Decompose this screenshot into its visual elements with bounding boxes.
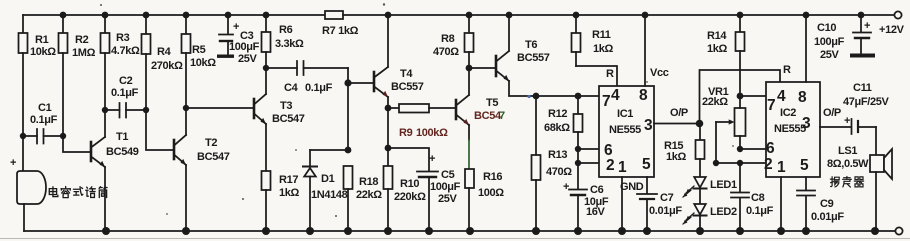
svg-text:R16: R16 bbox=[483, 171, 502, 183]
svg-text:0.1μF: 0.1μF bbox=[305, 82, 333, 94]
svg-text:270kΩ: 270kΩ bbox=[151, 60, 183, 72]
svg-text:R1: R1 bbox=[35, 34, 49, 46]
wire T1 emitter to ground bbox=[104, 167, 106, 231]
label O/P (IC2 output) bbox=[823, 107, 841, 119]
svg-text:5: 5 bbox=[642, 156, 651, 173]
label R (reset) IC1 bbox=[606, 68, 614, 80]
label R (reset) IC2 bbox=[783, 64, 791, 76]
svg-text:0.1μF: 0.1μF bbox=[111, 87, 139, 99]
svg-text:+: + bbox=[233, 21, 239, 33]
wire D1 cathode to node G bbox=[310, 149, 348, 151]
wire top +12V rail left segment bbox=[23, 14, 325, 16]
label T5 BC547 bbox=[474, 97, 505, 122]
ground symbol (C10) bbox=[850, 54, 875, 58]
capacitor C10 (electrolytic decoupling) bbox=[853, 15, 871, 53]
label R11 1kO bbox=[592, 29, 614, 55]
capacitor C11 (electrolytic coupling) bbox=[852, 119, 877, 134]
wire node J to T6 base bbox=[469, 67, 496, 69]
wire IC1 pin 1 to ground bbox=[621, 177, 623, 231]
label R18 22kO bbox=[356, 176, 382, 201]
resistor R12 bbox=[574, 96, 583, 163]
wire IC2 pin 3 output bbox=[820, 126, 851, 128]
wire IC1 pin 6 stub bbox=[578, 148, 599, 150]
svg-text:1kΩ: 1kΩ bbox=[707, 43, 728, 55]
svg-text:8Ω,0.5W: 8Ω,0.5W bbox=[827, 158, 869, 170]
wire IC1 pin 5 to C7 bbox=[646, 177, 648, 194]
svg-text:5: 5 bbox=[800, 157, 809, 174]
node T (pin2 / C8 junction) bbox=[737, 160, 743, 166]
label LED1 bbox=[710, 179, 737, 191]
svg-text:T3: T3 bbox=[280, 100, 292, 112]
capacitor C1 bbox=[23, 129, 63, 144]
scan specks bbox=[100, 3, 734, 217]
pin number 1 IC1 bbox=[618, 159, 627, 176]
wire IC1 pin 3 output bbox=[654, 123, 700, 125]
svg-text:7: 7 bbox=[602, 93, 610, 110]
electret microphone MIC bbox=[17, 171, 46, 204]
svg-text:470Ω: 470Ω bbox=[433, 46, 459, 58]
label R17 1kO bbox=[279, 174, 300, 199]
wire C4 to T4 base and detector node bbox=[347, 68, 349, 150]
label T3 BC547 bbox=[272, 100, 305, 125]
svg-text:25V: 25V bbox=[238, 53, 258, 65]
LED1 emission arrows bbox=[683, 186, 694, 197]
svg-text:T6: T6 bbox=[525, 39, 537, 51]
svg-text:C8: C8 bbox=[751, 192, 765, 204]
svg-text:R9: R9 bbox=[399, 127, 413, 139]
node C (R3 / T1 collector / C2) bbox=[102, 107, 108, 113]
svg-text:R11: R11 bbox=[592, 29, 611, 41]
svg-text:100kΩ: 100kΩ bbox=[416, 127, 448, 139]
pin number 7 IC1 bbox=[602, 93, 610, 110]
label C3 100uF 25V bbox=[229, 21, 260, 65]
potentiometer VR1 22kO bbox=[716, 96, 746, 163]
svg-text:220kΩ: 220kΩ bbox=[394, 191, 426, 203]
wire bottom ground rail bbox=[24, 230, 896, 232]
svg-text:16V: 16V bbox=[586, 206, 606, 218]
svg-text:3: 3 bbox=[644, 117, 653, 134]
label Vcc IC1 bbox=[650, 67, 669, 79]
transistor T4 BC557 bbox=[374, 67, 388, 97]
ground terminal circle bottom right bbox=[895, 227, 902, 234]
node D (C2 / R4 / T2 base) bbox=[143, 107, 149, 113]
node F (R6 / T3 collector / C4) bbox=[263, 65, 269, 71]
wire IC2 pin 2 stub bbox=[716, 162, 766, 164]
svg-text:T1: T1 bbox=[116, 131, 128, 143]
resistor R3 bbox=[101, 15, 110, 110]
diode D1 1N4148 bbox=[303, 150, 317, 231]
label C5 100uF 25V bbox=[429, 153, 461, 205]
svg-text:R13: R13 bbox=[548, 149, 567, 161]
label O/P (IC1 output) bbox=[670, 107, 688, 119]
svg-text:7: 7 bbox=[499, 110, 505, 122]
op-amp/timer IC1 NE555 box bbox=[599, 86, 654, 177]
node P (output / R15) bbox=[696, 120, 704, 128]
transistor T3 BC547 bbox=[254, 94, 266, 124]
svg-text:GND: GND bbox=[620, 181, 644, 193]
node A (mic / R1 / C1 junction) bbox=[20, 133, 26, 139]
capacitor C9 bbox=[797, 191, 815, 232]
svg-text:+: + bbox=[844, 115, 850, 127]
label LED2 bbox=[710, 206, 737, 218]
svg-text:+12V: +12V bbox=[879, 24, 905, 36]
label GND (IC1) bbox=[620, 181, 644, 193]
capacitor C8 bbox=[731, 163, 749, 231]
label +12V bbox=[879, 24, 905, 36]
node Q (R14 / VR1 / IC2 pin7) bbox=[737, 93, 744, 100]
svg-text:100μF: 100μF bbox=[430, 181, 461, 193]
node B (C1 / R2 / T1 base) bbox=[60, 133, 66, 139]
wire IC2 pin 7 stub bbox=[740, 95, 766, 97]
svg-text:BC54: BC54 bbox=[474, 110, 502, 122]
node K (R13 tap) bbox=[533, 93, 540, 100]
svg-text:C6: C6 bbox=[590, 184, 604, 196]
label (condenser microphone) bbox=[49, 187, 107, 198]
wire IC1 pin 8 to +12V rail bbox=[644, 15, 646, 86]
pin number 5 IC1 bbox=[642, 156, 651, 173]
label C6 10uF 16V bbox=[563, 181, 609, 218]
svg-text:C2: C2 bbox=[119, 75, 133, 87]
svg-text:R: R bbox=[606, 68, 614, 80]
label C10 100uF 25V bbox=[814, 20, 870, 61]
resistor R14 bbox=[736, 15, 745, 96]
wire microphone to ground rail bbox=[23, 204, 25, 231]
label T1 BC549 bbox=[106, 131, 139, 158]
resistor R2 bbox=[59, 15, 68, 136]
label NE555 (IC1) bbox=[609, 124, 641, 136]
pin number 1 IC2 bbox=[777, 159, 786, 176]
scan speck (blue) on T6 collector wire bbox=[527, 95, 530, 98]
svg-text:1N4148: 1N4148 bbox=[311, 189, 348, 201]
wire top +12V rail right segment bbox=[343, 14, 895, 16]
label LS1 8O,0.5W speaker bbox=[827, 145, 869, 170]
svg-text:1kΩ: 1kΩ bbox=[279, 187, 300, 199]
svg-text:+: + bbox=[864, 20, 870, 32]
label R16 100O bbox=[478, 171, 504, 199]
label R14 1kO bbox=[707, 30, 728, 55]
svg-text:R2: R2 bbox=[75, 34, 89, 46]
label R3 4.7kO bbox=[111, 32, 140, 57]
capacitor C5 (electrolytic) bbox=[388, 148, 438, 231]
svg-text:4: 4 bbox=[611, 87, 620, 104]
resistor R4 bbox=[142, 15, 151, 110]
timer IC2 NE555 box bbox=[766, 82, 820, 177]
svg-text:C9: C9 bbox=[820, 198, 834, 210]
capacitor C3 (electrolytic decoupling) bbox=[219, 15, 233, 54]
pin number 3 IC1 bbox=[644, 117, 653, 134]
label R1 10kO bbox=[30, 34, 56, 58]
svg-text:R12: R12 bbox=[548, 108, 567, 120]
svg-text:25V: 25V bbox=[820, 49, 840, 61]
node dots on top rail bbox=[60, 12, 865, 19]
label IC2 bbox=[780, 107, 796, 119]
svg-text:T2: T2 bbox=[205, 137, 217, 149]
label R10 220kO bbox=[394, 178, 426, 203]
svg-text:3: 3 bbox=[802, 115, 811, 132]
svg-text:7: 7 bbox=[767, 97, 775, 114]
wire T6 lower lead to IC1 pin7 net bbox=[509, 81, 599, 96]
node H (T4 / R9 / R10 / C5) bbox=[385, 105, 392, 112]
loudspeaker LS1 bbox=[870, 127, 892, 231]
resistor R1 bbox=[19, 15, 28, 136]
label C1 0.1uF bbox=[30, 102, 58, 126]
resistor R16 bbox=[465, 169, 474, 231]
wire T2 collector to node E bbox=[185, 108, 187, 135]
resistor R13 bbox=[532, 96, 541, 231]
wire T4 upper lead to +12V rail bbox=[387, 15, 389, 67]
svg-text:R6: R6 bbox=[279, 24, 293, 36]
junction dot T4 base tap bbox=[344, 79, 351, 86]
svg-text:1: 1 bbox=[618, 159, 627, 176]
node L (R12 tap) bbox=[575, 93, 582, 100]
label T2 BC547 bbox=[197, 137, 230, 163]
svg-text:C7: C7 bbox=[660, 192, 674, 204]
svg-text:10kΩ: 10kΩ bbox=[30, 46, 56, 58]
wire IC2 pin 8 to +12V rail bbox=[805, 15, 807, 82]
svg-text:470Ω: 470Ω bbox=[546, 166, 572, 178]
svg-text:1kΩ: 1kΩ bbox=[666, 151, 687, 163]
wire T5 collector to node J bbox=[468, 68, 470, 95]
capacitor C7 bbox=[637, 194, 657, 231]
svg-text:C11: C11 bbox=[853, 82, 872, 94]
node J (R8 / T5 collector / T6 base) bbox=[466, 65, 473, 72]
label R8 470O bbox=[433, 33, 459, 58]
svg-text:68kΩ: 68kΩ bbox=[544, 122, 570, 134]
wire node D to T2 base bbox=[146, 110, 174, 150]
wire T1 collector to node C bbox=[104, 110, 106, 137]
node G (D1 / R18 / T4 base net) bbox=[345, 147, 352, 154]
LED2 bbox=[694, 204, 707, 231]
svg-text:100Ω: 100Ω bbox=[478, 187, 504, 199]
node I (R10 / C5 junction) bbox=[385, 145, 392, 152]
label R2 1MO bbox=[72, 34, 96, 59]
svg-text:8: 8 bbox=[798, 89, 807, 106]
svg-text:22kΩ: 22kΩ bbox=[356, 189, 382, 201]
pin number 6 IC2 bbox=[766, 140, 775, 157]
svg-text:8: 8 bbox=[639, 87, 648, 104]
svg-text:0.01μF: 0.01μF bbox=[649, 205, 682, 217]
svg-text:47μF/25V: 47μF/25V bbox=[843, 96, 890, 108]
wire IC2 pin 1 to ground bbox=[780, 177, 782, 231]
node S (wiper join on pin2 net) bbox=[713, 160, 719, 166]
svg-text:25V: 25V bbox=[438, 193, 458, 205]
svg-text:100μF: 100μF bbox=[229, 41, 260, 53]
svg-text:+: + bbox=[10, 157, 16, 169]
label (speaker) Chinese glyphs bbox=[830, 177, 863, 188]
svg-text:0.1μF: 0.1μF bbox=[30, 114, 58, 126]
resistor R9 (horizontal) bbox=[388, 104, 456, 113]
label R5 10kO bbox=[190, 44, 216, 69]
svg-text:22kΩ: 22kΩ bbox=[702, 96, 728, 108]
svg-text:R10: R10 bbox=[400, 178, 419, 190]
svg-text:R14: R14 bbox=[707, 30, 727, 42]
node N (pins 2 tie) bbox=[575, 160, 581, 166]
svg-text:BC547: BC547 bbox=[272, 113, 305, 125]
svg-text:R7 1kΩ: R7 1kΩ bbox=[322, 25, 359, 37]
svg-text:3.3kΩ: 3.3kΩ bbox=[275, 38, 304, 50]
label C9 0.01uF bbox=[811, 198, 844, 223]
svg-text:C10: C10 bbox=[817, 22, 836, 34]
svg-text:NE555: NE555 bbox=[609, 124, 641, 136]
pin number 4 IC1 bbox=[611, 87, 620, 104]
pin number 6 IC1 bbox=[604, 142, 613, 159]
wire node A to microphone bbox=[22, 136, 24, 171]
svg-text:R18: R18 bbox=[359, 176, 378, 188]
label IC1 bbox=[617, 108, 633, 120]
svg-text:6: 6 bbox=[766, 140, 775, 157]
wire T5 emitter to R16 bbox=[468, 125, 470, 140]
pin number 2 IC2 bbox=[764, 156, 772, 173]
wire IC1 pin 2 stub bbox=[578, 162, 599, 164]
wire IC2 pin 6 stub bbox=[740, 148, 766, 150]
svg-text:LS1: LS1 bbox=[838, 145, 857, 157]
svg-text:O/P: O/P bbox=[670, 107, 688, 119]
label R13 470O bbox=[546, 149, 572, 178]
wire IC1 output to IC2 pin 4 (reset) bbox=[700, 70, 781, 124]
svg-text:T5: T5 bbox=[486, 97, 498, 109]
pin number 3 IC2 bbox=[802, 115, 811, 132]
LED2 emission arrows bbox=[683, 213, 694, 224]
svg-text:100μF: 100μF bbox=[814, 36, 845, 48]
svg-text:O/P: O/P bbox=[823, 107, 841, 119]
label R7 1kO bbox=[322, 25, 359, 37]
label R4 270kO bbox=[151, 46, 183, 72]
svg-text:R17: R17 bbox=[279, 174, 298, 186]
svg-text:BC557: BC557 bbox=[517, 52, 550, 64]
label T6 BC557 bbox=[517, 39, 550, 64]
label R15 1kO bbox=[664, 140, 687, 163]
svg-text:IC2: IC2 bbox=[780, 107, 796, 119]
wire node B to T1 base bbox=[63, 136, 91, 152]
svg-text:IC1: IC1 bbox=[617, 108, 633, 120]
pin number 8 IC2 bbox=[798, 89, 807, 106]
wire node H down to node I bbox=[387, 108, 389, 148]
resistor R10 bbox=[384, 148, 393, 231]
transistor T1 BC549 bbox=[91, 137, 105, 167]
wire T4 lower lead to node H bbox=[387, 97, 389, 108]
svg-text:+: + bbox=[429, 153, 435, 165]
svg-text:Vcc: Vcc bbox=[650, 67, 669, 79]
wire IC2 pin 5 to C9 bbox=[805, 177, 807, 190]
svg-text:C1: C1 bbox=[38, 102, 52, 114]
capacitor C4 bbox=[266, 61, 348, 75]
label R9 100kO bbox=[399, 127, 448, 139]
wire T6 upper lead to +12V rail bbox=[508, 15, 510, 51]
svg-text:1kΩ: 1kΩ bbox=[593, 43, 614, 55]
wire T3 emitter to R17 bbox=[265, 124, 267, 171]
resistor R17 bbox=[262, 171, 271, 231]
resistor R15 bbox=[696, 124, 705, 178]
svg-text:T4: T4 bbox=[400, 68, 413, 80]
resistor R6 bbox=[262, 15, 271, 68]
pin number 7 IC2 bbox=[767, 97, 775, 114]
label NE555 (IC2) bbox=[774, 123, 806, 135]
svg-text:4: 4 bbox=[777, 88, 786, 105]
svg-text:1MΩ: 1MΩ bbox=[72, 47, 96, 59]
capacitor C6 (electrolytic) bbox=[569, 163, 587, 231]
+12V supply terminal bbox=[894, 11, 901, 18]
wire T4 base tap bbox=[348, 82, 374, 84]
svg-text:C5: C5 bbox=[441, 169, 455, 181]
transistor T2 BC547 bbox=[174, 135, 186, 165]
node R (VR1 bottom / IC2 pin6) bbox=[737, 146, 743, 152]
svg-text:LED1: LED1 bbox=[710, 179, 737, 191]
label C2 0.1uF bbox=[111, 75, 139, 99]
resistor R11 bbox=[572, 15, 581, 66]
label R12 68kO bbox=[544, 108, 570, 134]
svg-text:BC547: BC547 bbox=[197, 151, 230, 163]
resistor R7 (in series with rail) bbox=[325, 11, 343, 19]
svg-text:2: 2 bbox=[606, 157, 614, 174]
svg-text:1: 1 bbox=[777, 159, 786, 176]
pin number 4 IC2 bbox=[777, 88, 786, 105]
LED1 bbox=[694, 177, 707, 204]
svg-text:R5: R5 bbox=[192, 44, 206, 56]
node E (R5 / T2 collector / T3 base) bbox=[183, 105, 189, 111]
label C4 0.1uF bbox=[284, 82, 333, 94]
pin number 2 IC1 bbox=[606, 157, 614, 174]
scan edge artifact line bbox=[0, 238, 910, 240]
wire T3 collector to node F bbox=[265, 68, 267, 94]
wire R11 to IC1 pin 4 (reset) bbox=[576, 66, 617, 86]
label C8 0.1uF bbox=[746, 192, 774, 217]
svg-text:4.7kΩ: 4.7kΩ bbox=[111, 45, 140, 57]
node dots on bottom rail bbox=[102, 227, 879, 235]
svg-text:0.1μF: 0.1μF bbox=[746, 205, 774, 217]
wire node E to T3 base bbox=[186, 107, 254, 109]
svg-text:10kΩ: 10kΩ bbox=[190, 57, 216, 69]
svg-text:BC549: BC549 bbox=[106, 146, 139, 158]
resistor R8 bbox=[465, 15, 474, 68]
svg-text:BC557: BC557 bbox=[391, 81, 424, 93]
label D1 1N4148 bbox=[311, 173, 348, 201]
label T4 BC557 bbox=[391, 68, 424, 93]
svg-text:LED2: LED2 bbox=[710, 206, 737, 218]
resistor R5 bbox=[182, 15, 191, 108]
svg-text:2: 2 bbox=[764, 156, 772, 173]
transistor T6 BC557 bbox=[496, 51, 509, 81]
label R6 3.3kO bbox=[275, 24, 304, 50]
transistor T5 BC547 bbox=[456, 95, 469, 125]
svg-text:R4: R4 bbox=[157, 46, 172, 58]
capacitor C2 bbox=[105, 103, 146, 118]
label VR1 22kO bbox=[702, 86, 729, 108]
svg-text:0.01μF: 0.01μF bbox=[811, 211, 844, 223]
svg-text:R: R bbox=[783, 64, 791, 76]
resistor R18 bbox=[344, 166, 353, 231]
svg-text:D1: D1 bbox=[321, 173, 335, 185]
wire T2 emitter to ground bbox=[185, 165, 187, 231]
svg-text:R8: R8 bbox=[441, 33, 455, 45]
microphone polarity + bbox=[10, 157, 16, 169]
svg-text:+: + bbox=[563, 181, 569, 193]
svg-text:C4: C4 bbox=[284, 82, 299, 94]
label C11 47uF/25V bbox=[843, 82, 890, 127]
node M (pins 6 tie) bbox=[575, 146, 581, 152]
pin number 5 IC2 bbox=[800, 157, 809, 174]
ground symbol (C3) bbox=[217, 55, 234, 58]
svg-text:R3: R3 bbox=[116, 32, 130, 44]
label C7 0.01uF bbox=[649, 192, 682, 217]
pin number 8 IC1 bbox=[639, 87, 648, 104]
